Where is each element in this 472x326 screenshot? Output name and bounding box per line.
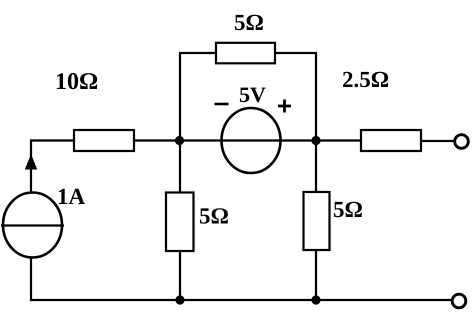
node junction dot: left branch / bottom rail — [175, 295, 184, 304]
resistor 5-ohm left vertical (box) — [166, 193, 194, 252]
voltage source U1 (5V circle) — [222, 108, 281, 173]
wire: left vertical branch through 5-ohm resistor — [179, 141, 181, 301]
wire: middle horizontal, 2.5-ohm resistor to top output terminal — [419, 140, 454, 142]
wire: middle horizontal, left corner to 10-ohm resistor — [30, 139, 76, 141]
wire: middle horizontal, 10-ohm resistor to 2.5-ohm resistor (through 5V source) — [132, 139, 363, 141]
node junction dot: right branch / middle wire — [311, 136, 320, 145]
wire: right vertical branch through 5-ohm resistor — [315, 141, 317, 301]
label 5V — [240, 88, 266, 103]
wire: current source bottom to bottom rail — [30, 256, 32, 301]
node junction dot: 10-ohm / left branch / middle wire — [175, 136, 184, 145]
label 5-ohm top — [235, 15, 263, 30]
resistor 2.5-ohm (horizontal box) — [361, 130, 421, 151]
wire: bottom rail, current source to bottom output terminal — [30, 299, 452, 301]
polarity plus sign — [278, 100, 291, 113]
label 5-ohm right — [334, 202, 362, 217]
resistor 10-ohm (horizontal box) — [74, 130, 134, 151]
resistor 5-ohm right vertical (box) — [304, 192, 330, 250]
terminal: top output (open circle) — [455, 135, 469, 149]
label 5-ohm left — [200, 208, 228, 223]
current source I1 (1A circle with bar and up arrow) — [1, 154, 64, 258]
label 10-ohm — [57, 73, 97, 89]
terminal: bottom output (open circle) — [452, 294, 466, 308]
polarity minus sign — [215, 103, 229, 106]
label 2.5-ohm — [343, 72, 388, 88]
resistor 5-ohm top (horizontal box) — [216, 43, 275, 64]
node junction dot: right branch / bottom rail — [311, 295, 320, 304]
label 1A — [59, 189, 85, 204]
wire: left riser, middle wire down to current source arrow — [30, 140, 32, 195]
wire: top loop (left riser, top run, right riser) — [180, 53, 316, 141]
